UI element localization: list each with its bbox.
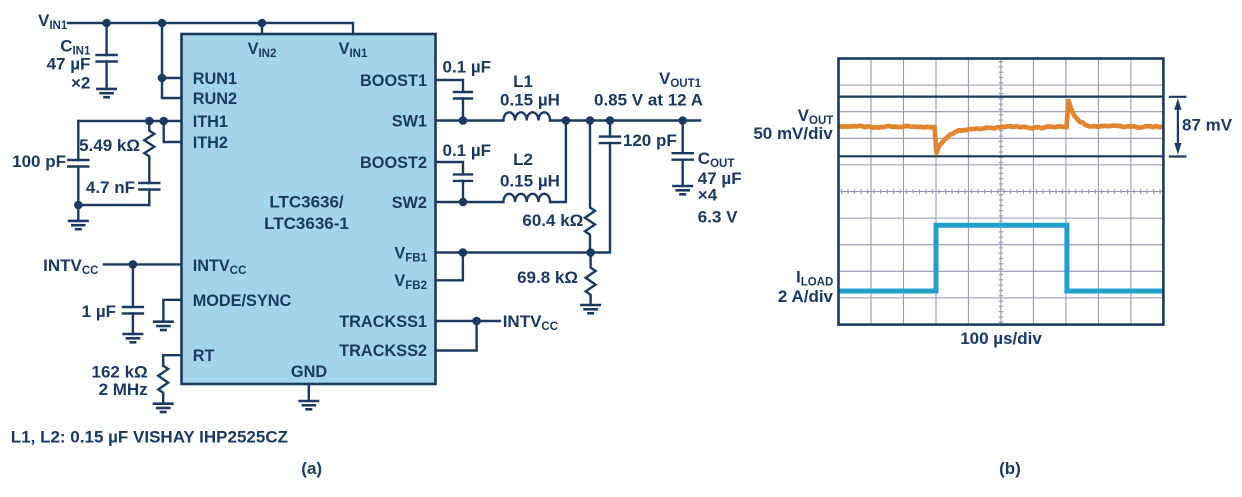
wire L2 riser (550, 121, 566, 203)
ground 100pF (68, 221, 89, 229)
annotation 87mV bars (1169, 97, 1187, 157)
svg-text:0.15 µH: 0.15 µH (500, 172, 560, 191)
node VIN rail / RUN riser (158, 19, 167, 28)
node SW2/cap (459, 198, 468, 207)
svg-text:100 µs/div: 100 µs/div (960, 329, 1042, 348)
wire INTVCC (104, 263, 181, 265)
svg-text:L1: L1 (513, 72, 533, 91)
trace ILOAD blue (839, 225, 1164, 291)
svg-text:GND: GND (291, 363, 327, 381)
resistor RT 162k (158, 366, 168, 404)
svg-text:INTVCC: INTVCC (43, 256, 98, 277)
inductor L1 (503, 112, 550, 120)
node TRACKSS (472, 317, 481, 326)
node L2 riser (562, 116, 571, 125)
wire: RUN riser and pins (162, 23, 181, 98)
wire VFB1 (436, 251, 591, 253)
svg-text:VIN1: VIN1 (38, 11, 68, 32)
capacitor 4.7nF (139, 182, 159, 184)
node INTVCC (129, 260, 138, 269)
scope panel (839, 59, 1187, 325)
svg-text:VOUT1: VOUT1 (659, 69, 702, 90)
svg-text:(a): (a) (301, 459, 322, 478)
capacitor COUT (682, 121, 684, 154)
svg-text:RUN1: RUN1 (193, 70, 237, 88)
wire TRACKSS2 (436, 321, 477, 351)
svg-text:4.7 nF: 4.7 nF (86, 178, 135, 197)
svg-text:BOOST2: BOOST2 (360, 154, 427, 172)
capacitor 100pF (77, 121, 79, 160)
svg-text:0.15 µH: 0.15 µH (500, 90, 560, 109)
resistor 60.4k (585, 121, 595, 253)
trace VOUT orange (839, 101, 1164, 153)
wire ITH2 (164, 121, 181, 142)
wire BOOST1 (436, 80, 463, 92)
annotation 87mV arrowheads (1174, 98, 1181, 154)
svg-text:MODE/SYNC: MODE/SYNC (193, 292, 292, 310)
svg-text:2 A/div: 2 A/div (778, 287, 834, 306)
IC U1 LTC3636 box (182, 34, 436, 384)
wire TRACKSS1 (436, 320, 500, 322)
node VFB1 b (586, 248, 595, 257)
svg-text:LTC3636-1: LTC3636-1 (264, 214, 349, 233)
svg-text:ILOAD: ILOAD (796, 267, 833, 288)
capacitor 0.1uF bottom (454, 173, 472, 175)
svg-text:TRACKSS1: TRACKSS1 (339, 313, 427, 331)
resistor 69.8k (586, 253, 596, 306)
center axis ticks vertical (999, 61, 1004, 324)
capacitor 120pF (609, 121, 611, 137)
node 60.4k top (586, 116, 595, 125)
node ITH gnd (74, 201, 83, 210)
texts schematic (11, 11, 742, 478)
svg-text:47 µF: 47 µF (47, 55, 91, 74)
cursor line upper (839, 95, 1164, 97)
svg-text:ITH1: ITH1 (193, 113, 228, 131)
svg-text:6.3 V: 6.3 V (698, 208, 738, 227)
svg-text:TRACKSS2: TRACKSS2 (339, 342, 427, 360)
svg-text:BOOST1: BOOST1 (360, 72, 427, 90)
ground RT (153, 404, 174, 412)
node COUT (678, 116, 687, 125)
svg-text:L2: L2 (513, 150, 533, 169)
node VFB1 a (459, 248, 468, 257)
svg-text:ITH2: ITH2 (193, 134, 228, 152)
wire GND pin (308, 385, 310, 401)
svg-text:INTVCC: INTVCC (503, 312, 558, 333)
node VIN rail / VIN2 (258, 19, 267, 28)
ground MODE/SYNC (153, 322, 174, 330)
node 120pF top (606, 116, 615, 125)
wire VOUT rail (550, 119, 700, 121)
wire VFB2 (436, 253, 463, 281)
scope texts (753, 106, 1232, 478)
wire: VIN2 drop (261, 23, 263, 33)
svg-text:162 kΩ: 162 kΩ (92, 363, 148, 382)
grid lines (839, 59, 1164, 325)
svg-text:RT: RT (193, 347, 215, 365)
ground COUT (672, 186, 693, 194)
svg-text:LTC3636/: LTC3636/ (269, 193, 344, 212)
svg-text:RUN2: RUN2 (193, 90, 237, 108)
svg-text:50 mV/div: 50 mV/div (753, 124, 833, 143)
wire gnd stem (77, 205, 79, 221)
capacitor 0.1uF top (454, 91, 472, 93)
ground 69.8k (580, 305, 601, 313)
svg-text:60.4 kΩ: 60.4 kΩ (522, 211, 583, 230)
svg-text:69.8 kΩ: 69.8 kΩ (517, 268, 578, 287)
svg-text:100 pF: 100 pF (12, 152, 66, 171)
node VIN rail / CIN1 (102, 19, 111, 28)
svg-text:120 pF: 120 pF (623, 131, 677, 150)
svg-text:L1, L2: 0.15 µF VISHAY IHP2525: L1, L2: 0.15 µF VISHAY IHP2525CZ (11, 428, 288, 447)
scope border (839, 59, 1164, 325)
svg-text:COUT: COUT (698, 149, 735, 170)
center axis ticks horizontal (841, 189, 1163, 194)
wire ITH1 (78, 120, 181, 122)
wire ITH bottom (78, 204, 149, 206)
resistor R 5.49k (144, 121, 154, 183)
svg-text:×4: ×4 (698, 185, 718, 204)
capacitor 1uF (132, 264, 134, 307)
wire RUN1 (162, 77, 181, 79)
svg-text:0.1 µF: 0.1 µF (443, 141, 492, 160)
node ITH1 a (145, 117, 154, 126)
wire RT (163, 355, 181, 365)
node ITH1 b (159, 117, 168, 126)
cursor line lower (839, 155, 1164, 157)
ground 1uF (122, 334, 143, 342)
svg-text:(b): (b) (999, 459, 1021, 478)
ground GND pin (298, 401, 319, 409)
wire SW2 (436, 201, 503, 203)
svg-text:1 µF: 1 µF (82, 302, 116, 321)
wire: VIN1 top rail (68, 23, 353, 33)
node RUN1 (158, 74, 167, 83)
svg-text:5.49 kΩ: 5.49 kΩ (79, 136, 140, 155)
svg-text:2 MHz: 2 MHz (99, 380, 148, 399)
svg-text:0.1 µF: 0.1 µF (443, 58, 492, 77)
inductor L2 (503, 194, 550, 202)
svg-text:SW2: SW2 (392, 194, 427, 212)
capacitor CIN1 (105, 23, 107, 55)
ground CIN1 (96, 89, 117, 97)
wire MODE/SYNC (163, 300, 181, 322)
wire BOOST2 (436, 162, 463, 174)
wire SW1 (436, 119, 503, 121)
svg-text:87 mV: 87 mV (1182, 115, 1233, 134)
svg-text:SW1: SW1 (392, 113, 427, 131)
svg-text:0.85 V at 12 A: 0.85 V at 12 A (594, 90, 703, 109)
svg-text:×2: ×2 (71, 74, 90, 93)
node SW1/cap (459, 116, 468, 125)
